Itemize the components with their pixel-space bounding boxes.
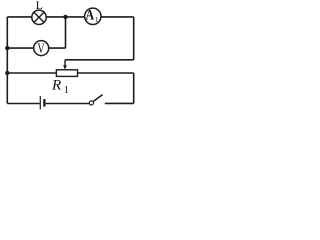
- svg-text:1: 1: [95, 15, 99, 24]
- switch pivot circle: [89, 101, 93, 105]
- wire bottom left (to battery): [7, 103, 39, 105]
- wire middle row left (to rheostat left terminal): [7, 72, 56, 74]
- battery long plate (positive): [39, 96, 41, 109]
- wire wiper connection horizontal: [65, 59, 134, 61]
- wire battery to switch: [46, 103, 89, 105]
- voltmeter V circle: [34, 41, 49, 56]
- switch lever: [93, 95, 102, 102]
- wire wiper vertical into rheostat: [64, 60, 66, 66]
- wire right rail upper segment: [133, 17, 135, 60]
- ammeter A1 circle: [85, 8, 101, 24]
- svg-text:V: V: [37, 41, 45, 57]
- lamp L circle: [32, 10, 46, 24]
- arrowhead of rheostat wiper: [63, 65, 67, 69]
- svg-text:A: A: [86, 7, 95, 23]
- wire middle row right (rheostat right terminal to right rail): [78, 72, 134, 74]
- svg-text:1: 1: [64, 85, 69, 96]
- rheostat R1 body rectangle: [56, 70, 77, 77]
- node junction dot left rail / voltmeter branch: [5, 46, 9, 50]
- wire voltmeter branch vertical up to top wire: [65, 17, 67, 48]
- node junction dot on top wire: [63, 15, 67, 19]
- battery short plate (negative): [43, 99, 45, 107]
- wire voltmeter branch horizontal: [7, 47, 65, 49]
- wire bottom right of switch: [105, 102, 134, 104]
- svg-text:L: L: [36, 0, 43, 12]
- svg-text:R: R: [51, 78, 61, 94]
- wire right rail lower segment: [133, 73, 135, 103]
- wire left rail: [6, 17, 8, 104]
- node junction dot left rail / rheostat branch: [5, 71, 9, 75]
- lamp X cross: [34, 12, 44, 22]
- wire top horizontal: [7, 16, 133, 18]
